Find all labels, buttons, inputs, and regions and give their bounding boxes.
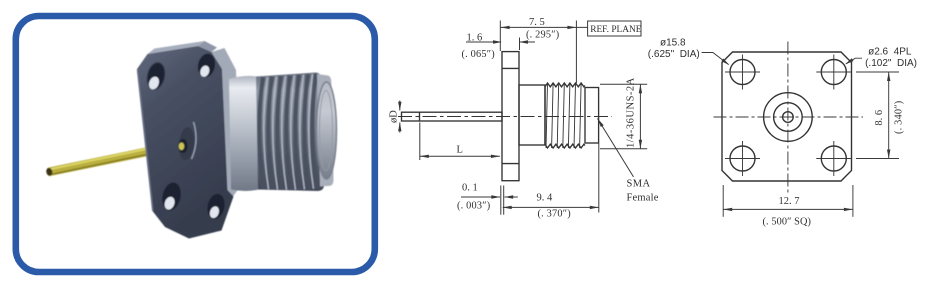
svg-text:9. 4: 9. 4	[537, 192, 554, 203]
svg-text:1. 6: 1. 6	[467, 32, 483, 43]
svg-text:(. 370″): (. 370″)	[538, 209, 571, 220]
svg-text:12. 7: 12. 7	[779, 196, 800, 207]
svg-text:1/4-36UNS-2A: 1/4-36UNS-2A	[626, 77, 637, 148]
svg-text:øD: øD	[389, 110, 400, 123]
svg-text:(. 500″ SQ): (. 500″ SQ)	[763, 216, 812, 227]
svg-text:Female: Female	[627, 193, 659, 204]
svg-text:REF. PLANE: REF. PLANE	[590, 25, 642, 35]
svg-text:(. 065″): (. 065″)	[462, 49, 495, 60]
svg-text:L: L	[457, 145, 463, 156]
svg-text:(.102" DIA): (.102" DIA)	[865, 58, 917, 69]
svg-text:(.625" DIA): (.625" DIA)	[648, 49, 700, 60]
svg-text:8. 6: 8. 6	[874, 110, 885, 126]
svg-text:(. 340″): (. 340″)	[894, 101, 905, 134]
svg-text:ø15.8: ø15.8	[660, 38, 686, 49]
svg-text:(. 295″): (. 295″)	[526, 30, 559, 41]
svg-text:ø2.6 4PL: ø2.6 4PL	[868, 47, 912, 58]
svg-text:0. 1: 0. 1	[462, 182, 478, 193]
svg-text:SMA: SMA	[627, 178, 651, 189]
svg-text:(. 003″): (. 003″)	[457, 201, 490, 212]
svg-text:7. 5: 7. 5	[529, 17, 545, 28]
